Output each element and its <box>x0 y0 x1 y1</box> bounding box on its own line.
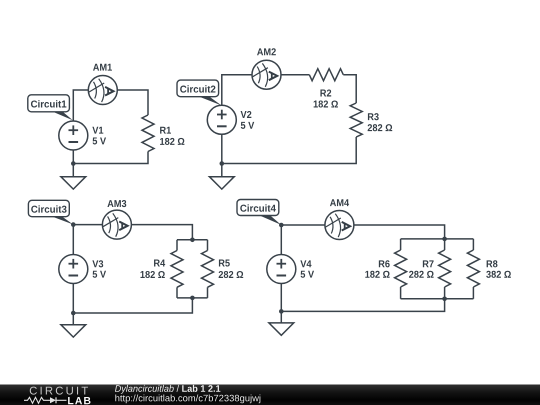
label R5 <box>219 260 230 267</box>
value 5 V (V1) <box>93 137 106 144</box>
label AM1 <box>93 64 112 71</box>
label callout Circuit3 <box>28 200 73 224</box>
ground GND2 <box>209 177 234 189</box>
resistor R7 <box>439 239 451 299</box>
value 182 ohm (R6) <box>365 271 389 278</box>
label R3 <box>368 113 379 120</box>
ammeter AM3 <box>102 210 131 239</box>
label AM4 <box>330 199 349 206</box>
label R4 <box>154 260 165 267</box>
wire C2 R2 to R3 <box>343 75 356 103</box>
logo diode <box>50 397 56 403</box>
value 182 ohm (R1) <box>160 138 184 145</box>
value 282 ohm (R7) <box>409 271 434 278</box>
logo word CIRCUIT <box>30 387 88 395</box>
label R2 <box>320 89 331 96</box>
ammeter AM2 <box>252 60 281 89</box>
footer title <box>115 385 220 394</box>
junction C3 top bus node <box>190 238 195 243</box>
junction C3 ground node <box>71 311 76 316</box>
resistor R3 <box>350 103 362 137</box>
ground GND1 <box>61 177 86 189</box>
wire C3 bottom bus <box>177 297 208 299</box>
wire C3 ammeter to bus <box>131 225 192 240</box>
wire C3 top bus <box>177 239 208 241</box>
resistor R2 <box>309 69 343 81</box>
junction C1 ground node <box>71 161 76 166</box>
label R7 <box>423 260 434 267</box>
value 5 V (V4) <box>301 271 314 278</box>
wire C4 bottom bus <box>401 298 474 300</box>
wire C1 bottom return <box>73 152 148 164</box>
wire C3 bottom return <box>73 298 192 313</box>
ammeter AM4 <box>325 211 354 240</box>
junction C3 input node <box>71 222 76 227</box>
ground GND3 <box>61 325 86 337</box>
logo resistor squiggle <box>24 397 50 403</box>
label V2 <box>241 111 252 118</box>
wire C4 ammeter to bus <box>354 225 445 239</box>
wire C3 node to ammeter <box>73 224 102 226</box>
junction C2 ground node <box>220 161 225 166</box>
wire C2 ammeter to R2 <box>281 74 309 76</box>
wire C4 node to source <box>280 225 282 255</box>
label V1 <box>92 127 103 134</box>
value 282 ohm (R5) <box>219 271 244 278</box>
voltage source V1 <box>59 121 88 150</box>
wire C4 source to ground <box>280 284 282 323</box>
value 282 ohm (R3) <box>368 124 393 131</box>
wire C2 source to ammeter <box>222 75 252 106</box>
junction C4 bottom bus node <box>442 297 447 302</box>
label V3 <box>92 260 103 267</box>
wire C4 node to ammeter <box>281 224 325 226</box>
wire C4 bottom return <box>281 299 444 312</box>
junction C3 bottom bus node <box>190 296 195 301</box>
junction C4 top bus node <box>442 237 447 242</box>
resistor R8 <box>467 239 479 299</box>
label AM2 <box>257 48 276 55</box>
wire C2 source to ground <box>221 134 223 176</box>
value 5 V (V3) <box>93 271 106 278</box>
ammeter AM1 <box>88 76 117 105</box>
resistor R5 <box>202 240 214 298</box>
wire C3 node to source <box>72 225 74 255</box>
junction C4 input node <box>279 223 284 228</box>
resistor R4 <box>171 240 183 298</box>
label AM3 <box>107 200 126 207</box>
value 182 ohm (R4) <box>141 271 165 278</box>
wire C3 source to ground <box>72 284 74 325</box>
wire C1 source to ground <box>72 150 74 177</box>
resistor R6 <box>395 239 407 299</box>
value 382 ohm (R8) <box>486 271 511 278</box>
voltage source V4 <box>267 255 296 284</box>
ground GND4 <box>269 323 294 335</box>
label callout Circuit1 <box>28 95 73 120</box>
wire C2 bottom return <box>222 137 356 164</box>
resistor R1 <box>142 115 154 152</box>
value 5 V (V2) <box>241 122 254 129</box>
label V4 <box>300 260 311 267</box>
value 182 ohm (R2) <box>314 100 338 107</box>
wire C1 source to ammeter <box>73 90 88 121</box>
wire C1 ammeter to R1 <box>117 90 148 115</box>
label R6 <box>379 260 390 267</box>
junction C4 ground node <box>279 309 284 314</box>
label callout Circuit4 <box>237 200 281 225</box>
logo word LAB <box>68 397 90 404</box>
label R1 <box>160 127 171 134</box>
footer url <box>115 394 260 403</box>
voltage source V3 <box>59 255 88 284</box>
voltage source V2 <box>207 105 236 134</box>
label callout Circuit2 <box>177 80 221 105</box>
wire C4 top bus <box>401 238 474 240</box>
label R8 <box>487 260 498 267</box>
